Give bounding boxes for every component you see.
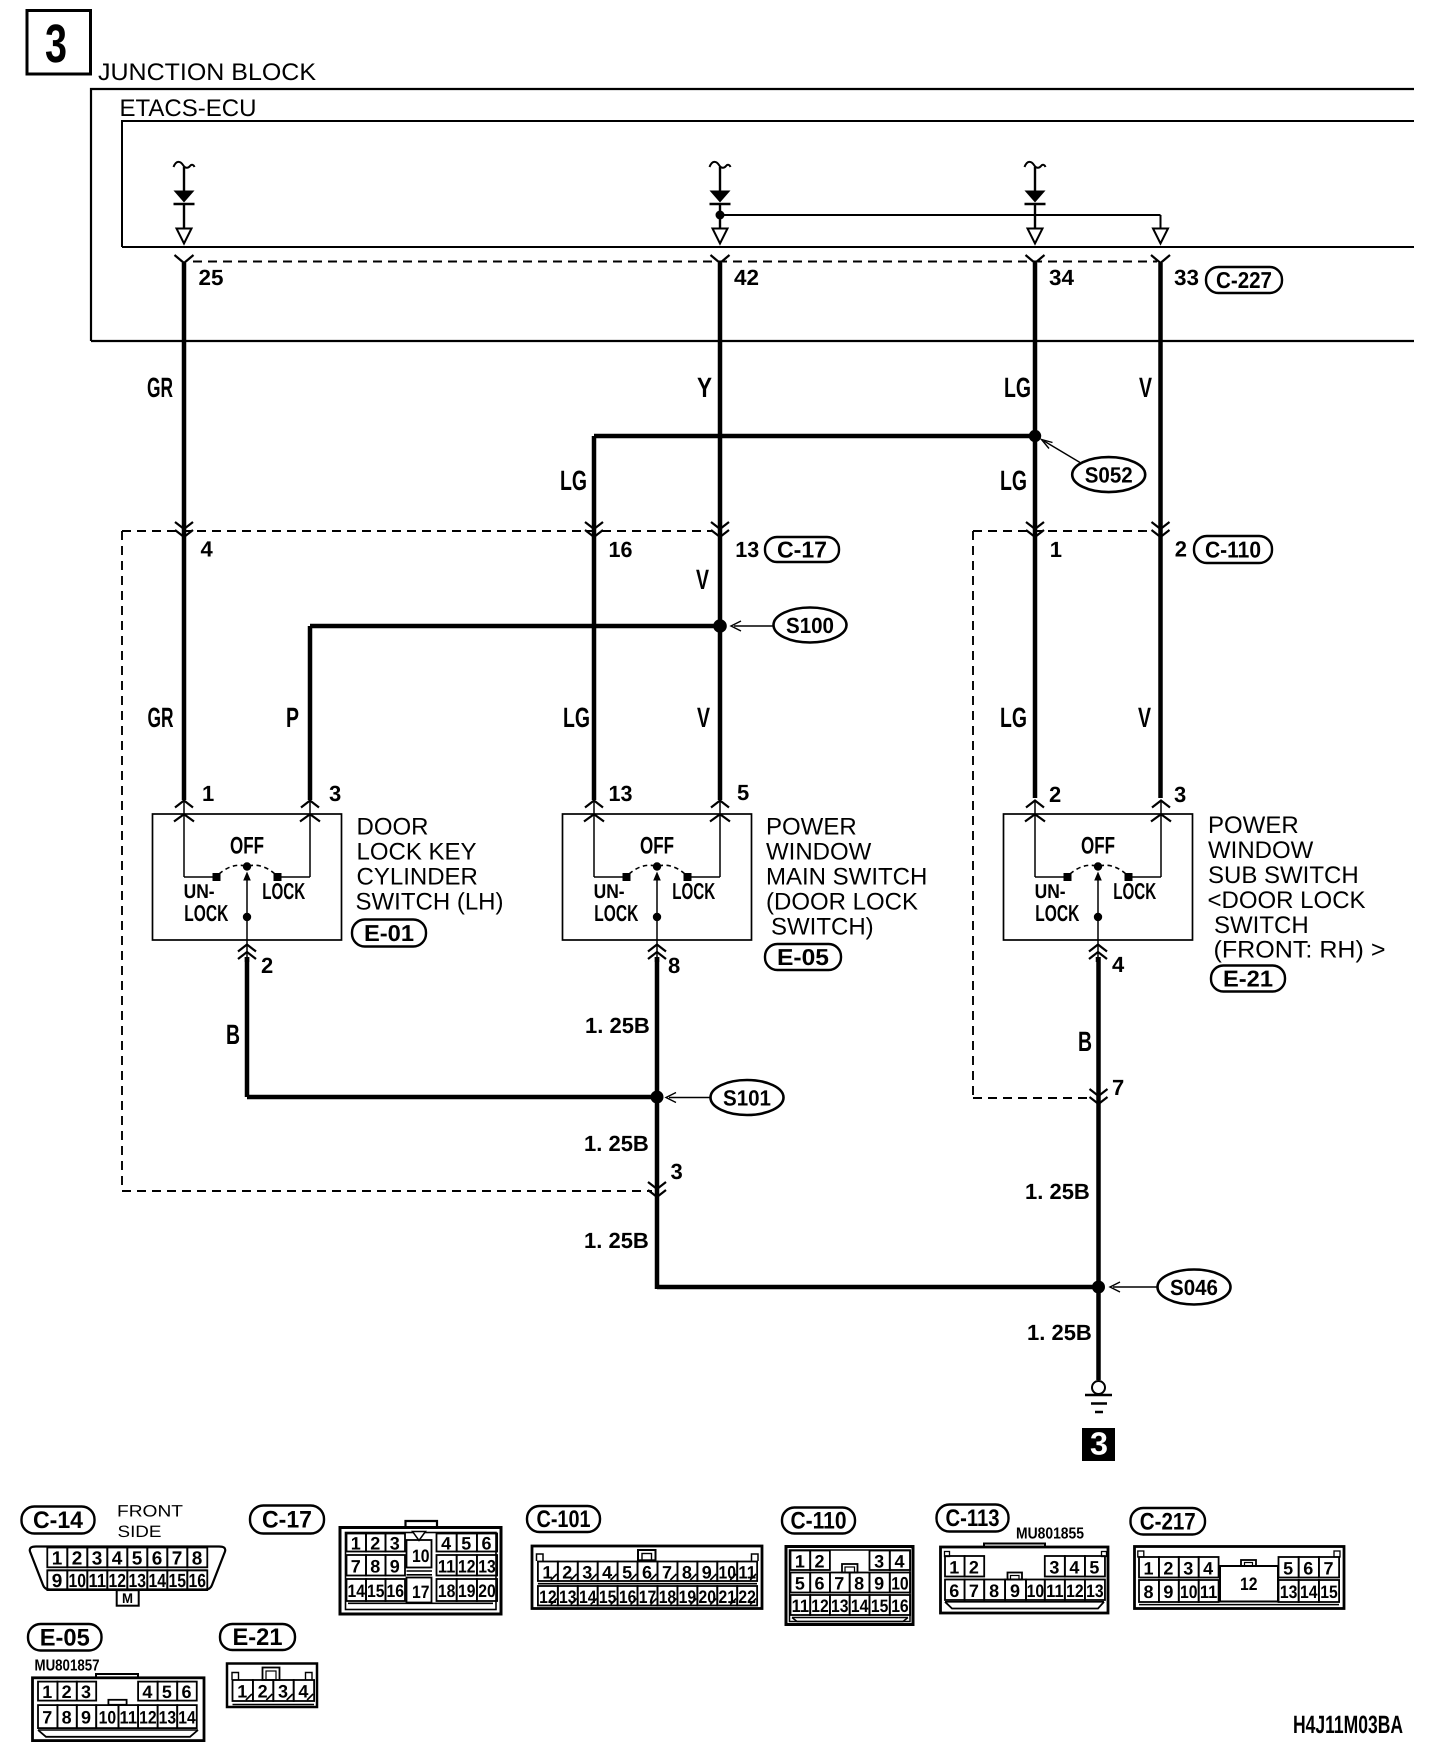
- svg-text:8: 8: [192, 1548, 203, 1569]
- svg-text:5: 5: [132, 1548, 143, 1569]
- svg-text:7: 7: [1112, 1075, 1124, 1100]
- svg-text:1: 1: [42, 1682, 52, 1702]
- svg-text:2: 2: [261, 953, 273, 978]
- svg-text:1. 25B: 1. 25B: [584, 1228, 649, 1253]
- svg-text:5: 5: [1283, 1558, 1293, 1578]
- svg-text:11: 11: [1200, 1582, 1218, 1602]
- svg-text:C-227: C-227: [1216, 267, 1272, 293]
- svg-text:MU801857: MU801857: [35, 1658, 100, 1675]
- svg-text:3: 3: [874, 1551, 884, 1571]
- svg-text:33: 33: [1174, 265, 1199, 290]
- svg-text:6: 6: [181, 1682, 191, 1702]
- svg-text:8: 8: [62, 1708, 72, 1728]
- svg-text:LOCK: LOCK: [184, 900, 228, 926]
- svg-text:LG: LG: [560, 465, 587, 496]
- svg-text:E-21: E-21: [233, 1624, 283, 1651]
- svg-text:<DOOR LOCK: <DOOR LOCK: [1208, 887, 1366, 914]
- svg-text:5: 5: [795, 1574, 805, 1594]
- svg-text:POWER: POWER: [766, 814, 857, 841]
- svg-text:14: 14: [149, 1571, 167, 1592]
- svg-text:4: 4: [1203, 1558, 1213, 1578]
- svg-text:5: 5: [1089, 1557, 1099, 1577]
- svg-text:SWITCH): SWITCH): [771, 914, 874, 941]
- svg-text:FRONT: FRONT: [117, 1503, 183, 1521]
- svg-text:11: 11: [120, 1708, 138, 1728]
- svg-text:S101: S101: [723, 1086, 771, 1111]
- svg-text:3: 3: [1049, 1557, 1059, 1577]
- svg-text:3: 3: [45, 14, 67, 74]
- svg-text:2: 2: [1175, 537, 1187, 562]
- svg-text:10: 10: [718, 1562, 736, 1582]
- svg-text:LOCK: LOCK: [262, 878, 305, 904]
- svg-text:4: 4: [894, 1551, 904, 1571]
- svg-text:1: 1: [237, 1682, 247, 1702]
- svg-text:1. 25B: 1. 25B: [584, 1131, 649, 1156]
- svg-text:LG: LG: [563, 702, 590, 733]
- svg-text:19: 19: [679, 1587, 697, 1607]
- svg-text:10: 10: [69, 1571, 87, 1592]
- svg-text:8: 8: [668, 953, 680, 978]
- svg-text:34: 34: [1049, 265, 1075, 290]
- svg-text:S100: S100: [786, 613, 834, 638]
- svg-text:JUNCTION BLOCK: JUNCTION BLOCK: [98, 59, 316, 86]
- svg-text:1. 25B: 1. 25B: [585, 1013, 650, 1038]
- svg-text:6: 6: [152, 1548, 163, 1569]
- svg-text:11: 11: [792, 1596, 810, 1616]
- svg-text:GR: GR: [148, 702, 174, 733]
- svg-text:ETACS-ECU: ETACS-ECU: [120, 95, 257, 122]
- svg-text:3: 3: [278, 1682, 288, 1702]
- svg-text:10: 10: [99, 1708, 117, 1728]
- svg-text:Y: Y: [697, 372, 712, 403]
- svg-text:4: 4: [441, 1534, 451, 1554]
- svg-text:E-01: E-01: [364, 920, 414, 946]
- svg-text:C-110: C-110: [791, 1508, 847, 1535]
- svg-text:7: 7: [172, 1548, 183, 1569]
- svg-text:LOCK: LOCK: [1113, 878, 1156, 904]
- svg-text:M: M: [122, 1590, 133, 1606]
- svg-text:11: 11: [89, 1571, 107, 1592]
- svg-text:13: 13: [609, 781, 633, 806]
- svg-text:MAIN SWITCH: MAIN SWITCH: [766, 864, 927, 891]
- svg-text:1. 25B: 1. 25B: [1027, 1320, 1092, 1345]
- svg-text:7: 7: [834, 1574, 844, 1594]
- svg-text:V: V: [1139, 372, 1152, 403]
- svg-text:12: 12: [1240, 1574, 1258, 1594]
- svg-text:7: 7: [1324, 1558, 1334, 1578]
- svg-text:2: 2: [370, 1534, 380, 1554]
- svg-text:H4J11M03BA: H4J11M03BA: [1293, 1711, 1403, 1739]
- svg-text:1: 1: [52, 1548, 63, 1569]
- svg-text:4: 4: [201, 537, 214, 562]
- svg-text:OFF: OFF: [1081, 833, 1115, 860]
- svg-text:3: 3: [390, 1534, 400, 1554]
- svg-text:1: 1: [351, 1534, 361, 1554]
- svg-text:5: 5: [162, 1682, 172, 1702]
- svg-text:2: 2: [258, 1682, 268, 1702]
- svg-text:CYLINDER: CYLINDER: [357, 864, 478, 891]
- svg-text:19: 19: [458, 1581, 476, 1601]
- svg-text:7: 7: [969, 1581, 979, 1601]
- svg-text:3: 3: [1183, 1558, 1193, 1578]
- svg-text:11: 11: [738, 1562, 756, 1582]
- svg-text:6: 6: [949, 1581, 959, 1601]
- svg-text:13: 13: [831, 1596, 849, 1616]
- svg-text:10: 10: [891, 1574, 909, 1594]
- svg-text:18: 18: [438, 1581, 456, 1601]
- svg-text:9: 9: [81, 1708, 91, 1728]
- svg-text:18: 18: [659, 1587, 677, 1607]
- svg-text:3: 3: [671, 1159, 683, 1184]
- svg-text:20: 20: [478, 1581, 496, 1601]
- svg-text:(FRONT: RH) >: (FRONT: RH) >: [1214, 937, 1386, 964]
- svg-text:LOCK: LOCK: [1035, 900, 1079, 926]
- svg-text:16: 16: [387, 1581, 405, 1601]
- svg-text:1: 1: [795, 1551, 805, 1571]
- svg-text:9: 9: [52, 1571, 63, 1592]
- svg-text:C-14: C-14: [33, 1507, 84, 1534]
- svg-text:16: 16: [891, 1596, 909, 1616]
- svg-text:4: 4: [112, 1548, 123, 1569]
- svg-text:7: 7: [351, 1556, 361, 1576]
- svg-text:V: V: [1138, 702, 1151, 733]
- svg-text:LG: LG: [1000, 702, 1027, 733]
- svg-text:15: 15: [169, 1571, 187, 1592]
- svg-text:2: 2: [1049, 782, 1061, 807]
- svg-text:OFF: OFF: [640, 833, 674, 860]
- svg-text:3: 3: [1174, 782, 1186, 807]
- svg-text:13: 13: [159, 1708, 177, 1728]
- svg-text:V: V: [697, 702, 710, 733]
- svg-text:MU801855: MU801855: [1016, 1526, 1084, 1543]
- svg-text:21: 21: [718, 1587, 736, 1607]
- svg-text:12: 12: [458, 1556, 476, 1576]
- svg-text:16: 16: [619, 1587, 637, 1607]
- svg-text:C-217: C-217: [1140, 1508, 1196, 1535]
- svg-text:20: 20: [699, 1587, 717, 1607]
- svg-text:25: 25: [199, 265, 224, 290]
- svg-text:4: 4: [298, 1682, 308, 1702]
- svg-text:14: 14: [851, 1596, 869, 1616]
- svg-text:SWITCH: SWITCH: [1214, 912, 1309, 939]
- svg-text:17: 17: [412, 1582, 430, 1602]
- svg-text:DOOR: DOOR: [357, 814, 429, 841]
- svg-text:13: 13: [1086, 1581, 1104, 1601]
- svg-text:LOCK: LOCK: [672, 878, 715, 904]
- svg-text:C-17: C-17: [262, 1507, 312, 1534]
- svg-text:42: 42: [734, 265, 759, 290]
- svg-text:7: 7: [42, 1708, 52, 1728]
- svg-text:13: 13: [559, 1587, 577, 1607]
- svg-text:WINDOW: WINDOW: [766, 839, 872, 866]
- svg-text:15: 15: [367, 1581, 385, 1601]
- svg-text:SUB SWITCH: SUB SWITCH: [1208, 862, 1359, 889]
- svg-text:10: 10: [412, 1546, 430, 1566]
- svg-text:WINDOW: WINDOW: [1208, 837, 1314, 864]
- svg-text:C-101: C-101: [537, 1506, 591, 1533]
- svg-text:5: 5: [737, 780, 749, 805]
- svg-text:15: 15: [599, 1587, 617, 1607]
- svg-text:OFF: OFF: [230, 833, 264, 860]
- svg-text:14: 14: [579, 1587, 597, 1607]
- svg-text:3: 3: [1090, 1426, 1108, 1462]
- svg-text:LG: LG: [1000, 465, 1027, 496]
- svg-text:E-05: E-05: [40, 1624, 90, 1651]
- svg-text:LOCK: LOCK: [594, 900, 638, 926]
- svg-text:1: 1: [1050, 537, 1062, 562]
- svg-text:3: 3: [81, 1682, 91, 1702]
- svg-text:(DOOR LOCK: (DOOR LOCK: [766, 889, 918, 916]
- svg-text:12: 12: [139, 1708, 157, 1728]
- svg-text:3: 3: [92, 1548, 103, 1569]
- svg-text:4: 4: [142, 1682, 152, 1702]
- svg-text:LOCK KEY: LOCK KEY: [357, 839, 477, 866]
- svg-text:4: 4: [1069, 1557, 1079, 1577]
- svg-text:17: 17: [639, 1587, 657, 1607]
- svg-text:8: 8: [1143, 1582, 1153, 1602]
- svg-text:E-05: E-05: [777, 944, 829, 970]
- svg-text:22: 22: [738, 1587, 756, 1607]
- svg-text:S052: S052: [1085, 463, 1133, 488]
- svg-text:8: 8: [370, 1556, 380, 1576]
- svg-text:14: 14: [348, 1581, 366, 1601]
- svg-text:1: 1: [202, 781, 214, 806]
- svg-text:V: V: [696, 564, 709, 595]
- svg-text:9: 9: [874, 1574, 884, 1594]
- svg-text:6: 6: [815, 1574, 825, 1594]
- svg-text:12: 12: [539, 1587, 557, 1607]
- svg-text:13: 13: [1280, 1582, 1298, 1602]
- svg-text:6: 6: [1303, 1558, 1313, 1578]
- svg-text:16: 16: [189, 1571, 207, 1592]
- svg-text:C-17: C-17: [777, 537, 827, 563]
- svg-text:15: 15: [871, 1596, 889, 1616]
- svg-text:12: 12: [811, 1596, 829, 1616]
- svg-text:1. 25B: 1. 25B: [1025, 1179, 1090, 1204]
- svg-text:SIDE: SIDE: [118, 1523, 162, 1541]
- svg-text:2: 2: [62, 1682, 72, 1702]
- svg-text:8: 8: [989, 1581, 999, 1601]
- svg-text:P: P: [286, 702, 299, 733]
- svg-text:1: 1: [1143, 1558, 1153, 1578]
- svg-text:2: 2: [969, 1557, 979, 1577]
- svg-text:POWER: POWER: [1208, 812, 1299, 839]
- svg-text:12: 12: [1066, 1581, 1084, 1601]
- svg-text:13: 13: [478, 1556, 496, 1576]
- svg-text:S046: S046: [1170, 1275, 1218, 1300]
- svg-text:SWITCH (LH): SWITCH (LH): [356, 889, 504, 916]
- svg-text:LG: LG: [1004, 372, 1031, 403]
- svg-text:13: 13: [735, 537, 759, 562]
- svg-text:C-113: C-113: [946, 1505, 1000, 1532]
- svg-text:B: B: [1078, 1026, 1092, 1057]
- svg-text:14: 14: [178, 1708, 196, 1728]
- svg-text:6: 6: [482, 1534, 492, 1554]
- svg-text:3: 3: [329, 781, 341, 806]
- svg-text:10: 10: [1027, 1581, 1045, 1601]
- svg-text:4: 4: [1112, 952, 1125, 977]
- svg-text:2: 2: [1163, 1558, 1173, 1578]
- svg-text:9: 9: [1163, 1582, 1173, 1602]
- svg-text:9: 9: [1010, 1581, 1020, 1601]
- svg-text:2: 2: [72, 1548, 83, 1569]
- svg-text:B: B: [226, 1019, 240, 1050]
- svg-text:16: 16: [609, 537, 633, 562]
- svg-text:10: 10: [1180, 1582, 1198, 1602]
- svg-text:1: 1: [949, 1557, 959, 1577]
- svg-text:11: 11: [1046, 1581, 1064, 1601]
- svg-text:C-110: C-110: [1205, 537, 1261, 563]
- svg-text:E-21: E-21: [1223, 966, 1273, 992]
- svg-text:5: 5: [461, 1534, 471, 1554]
- svg-text:8: 8: [854, 1574, 864, 1594]
- svg-text:11: 11: [438, 1556, 456, 1576]
- svg-text:15: 15: [1320, 1582, 1338, 1602]
- svg-text:14: 14: [1300, 1582, 1318, 1602]
- svg-text:GR: GR: [147, 372, 173, 403]
- svg-text:9: 9: [390, 1556, 400, 1576]
- svg-text:2: 2: [815, 1551, 825, 1571]
